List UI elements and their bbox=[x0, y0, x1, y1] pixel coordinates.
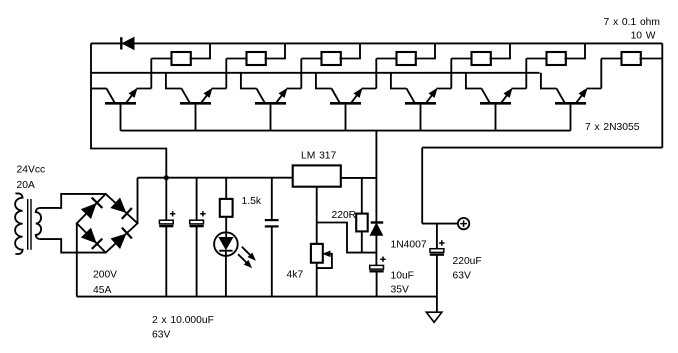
wire Q6 collector stub bbox=[466, 73, 482, 89]
wire R2 leads bbox=[226, 43, 285, 58]
transistor Q7 2N3055 bbox=[555, 102, 586, 105]
resistor 1.5k bbox=[220, 199, 233, 217]
wire Q4 base lead bbox=[345, 103, 347, 130]
wire Q7 base lead bbox=[570, 103, 572, 130]
wire: secondary top lead to bridge bbox=[40, 194, 106, 208]
wire: left input rail down from top rail bbox=[91, 43, 166, 177]
svg-text:LM 317: LM 317 bbox=[301, 151, 337, 162]
wire Q2 emitter stub up through collector rail bbox=[212, 59, 227, 89]
wire: base bus bbox=[121, 130, 571, 132]
svg-text:220R: 220R bbox=[332, 210, 357, 221]
wire Q7 collector stub bbox=[541, 73, 557, 89]
wire Q6 base lead bbox=[495, 103, 497, 130]
capacitor C4 10uF bbox=[370, 265, 384, 269]
ground bbox=[436, 297, 438, 313]
resistor 220R bbox=[356, 214, 368, 232]
wire R6 leads bbox=[526, 43, 585, 58]
transistor Q5 2N3055 bbox=[405, 102, 436, 105]
resistor R7 0.1 ohm bbox=[622, 52, 641, 65]
wire: base bus drop to LM317 output bbox=[375, 131, 377, 178]
resistor R5 0.1 ohm bbox=[472, 52, 491, 65]
wire: LED branch upper lead bbox=[225, 178, 227, 199]
transformer T1 core bbox=[27, 199, 29, 250]
bridge rectifier diamond outline bbox=[77, 194, 138, 253]
wire: unregulated DC bus bbox=[138, 177, 293, 179]
wire: right rail from top rail down to output line bbox=[661, 43, 663, 147]
diode 1N4007 bbox=[371, 221, 384, 223]
wire Q5 collector stub bbox=[391, 73, 407, 89]
wire: secondary bottom lead to bridge bbox=[40, 239, 106, 253]
wire: resistor to LED lead bbox=[225, 217, 227, 238]
wire R7 leads bbox=[601, 58, 662, 60]
junction node unregulated DC bbox=[164, 175, 169, 180]
wire Q1 emitter stub up through collector rail bbox=[137, 59, 152, 89]
resistor R6 0.1 ohm bbox=[547, 52, 566, 65]
transformer T1 secondary winding bbox=[36, 208, 41, 239]
wire: output vertical drop bbox=[421, 148, 423, 224]
transistor Q1 2N3055 bbox=[105, 102, 136, 105]
svg-text:7 x 0.1 ohm: 7 x 0.1 ohm bbox=[603, 17, 660, 28]
resistor R4 0.1 ohm bbox=[397, 52, 416, 65]
wire Q2 base lead bbox=[195, 103, 197, 130]
bridge diode (left to bottom) bbox=[82, 229, 96, 243]
wire R1 leads bbox=[151, 43, 210, 58]
svg-text:1.5k: 1.5k bbox=[242, 196, 262, 207]
svg-text:4k7: 4k7 bbox=[287, 270, 304, 281]
svg-text:1N4007: 1N4007 bbox=[391, 239, 427, 250]
wire: lead to output terminal bbox=[422, 223, 458, 225]
bridge diode (bottom to right) bbox=[111, 234, 125, 248]
bridge diode (top to right) bbox=[111, 198, 125, 212]
wire: diode branch upper lead bbox=[375, 178, 377, 223]
capacitor C3 100nF bbox=[265, 219, 279, 221]
wire: LM317 ADJ lead bbox=[316, 187, 318, 244]
wire Q2 collector stub bbox=[166, 73, 182, 89]
wire: C3 branch bbox=[271, 178, 273, 297]
transistor Q6 2N3055 bbox=[480, 102, 511, 105]
wire: 220R top lead bbox=[361, 178, 363, 214]
wire: LM317 output lead bbox=[341, 177, 377, 179]
svg-text:2 x 10.000uF: 2 x 10.000uF bbox=[152, 315, 214, 326]
transistor Q2 2N3055 bbox=[180, 102, 211, 105]
svg-text:10 W: 10 W bbox=[631, 31, 656, 42]
resistor R2 0.1 ohm bbox=[247, 52, 266, 65]
wire: 220R bottom lead bbox=[361, 231, 363, 252]
wire Q5 base lead bbox=[420, 103, 422, 130]
svg-text:35V: 35V bbox=[391, 285, 409, 296]
wire: LED lower lead bbox=[225, 251, 227, 297]
op-amp U1 LM 317 regulator bbox=[293, 165, 341, 186]
LED pilot light bbox=[214, 232, 238, 256]
wire Q5 emitter stub up through collector rail bbox=[437, 59, 452, 89]
wire Q1 collector stub bbox=[91, 88, 107, 90]
wire: C5 lower lead bbox=[436, 255, 438, 297]
svg-text:20A: 20A bbox=[17, 180, 35, 191]
capacitor C1 10000uF bbox=[159, 220, 173, 224]
capacitor C2 10000uF bbox=[190, 220, 204, 224]
wire Q3 base lead bbox=[270, 103, 272, 130]
svg-text:10uF: 10uF bbox=[391, 271, 414, 282]
capacitor C5 220uF bbox=[430, 249, 444, 253]
wire: collector bus rail bbox=[91, 72, 540, 74]
wire Q7 emitter stub up through collector rail bbox=[587, 59, 602, 89]
transistor Q3 2N3055 bbox=[255, 102, 286, 105]
wire R5 leads bbox=[451, 43, 510, 58]
wire Q4 collector stub bbox=[316, 73, 332, 89]
wire: diode to C4 bbox=[375, 235, 377, 265]
wire Q4 emitter stub up through collector rail bbox=[362, 59, 377, 89]
svg-text:63V: 63V bbox=[152, 329, 170, 340]
wire Q1 base lead bbox=[120, 103, 122, 130]
wire: C1 branch bbox=[165, 178, 167, 297]
potentiometer 4k7 bbox=[311, 244, 323, 263]
wire: ADJ to feedback node bbox=[317, 223, 377, 253]
svg-text:7 x 2N3055: 7 x 2N3055 bbox=[585, 122, 640, 133]
wire: output horizontal line bbox=[422, 147, 662, 149]
wire: bridge - output down to ground bus bbox=[76, 223, 78, 296]
resistor R1 0.1 ohm bbox=[172, 52, 191, 65]
svg-text:220uF: 220uF bbox=[453, 256, 482, 267]
wire: C2 branch bbox=[196, 178, 198, 297]
transformer T1 primary winding bbox=[15, 193, 22, 254]
wire: C5 upper lead bbox=[436, 224, 438, 249]
wire: pot bottom lead bbox=[316, 263, 318, 297]
diode D1 protection (across regulator) on top rail bbox=[120, 37, 122, 49]
wire Q3 collector stub bbox=[241, 73, 257, 89]
svg-text:45A: 45A bbox=[93, 285, 111, 296]
svg-text:200V: 200V bbox=[93, 269, 117, 280]
wire: bridge + output up to bus bbox=[137, 178, 139, 224]
output terminal + bbox=[458, 218, 469, 229]
wire R3 leads bbox=[301, 43, 360, 58]
wire Q6 emitter stub up through collector rail bbox=[512, 59, 527, 89]
wire: ground bus bbox=[77, 296, 437, 298]
wire Q3 emitter stub up through collector rail bbox=[287, 59, 302, 89]
svg-text:63V: 63V bbox=[453, 271, 471, 282]
transistor Q4 2N3055 bbox=[330, 102, 361, 105]
bridge diode (lower-left to top) bbox=[82, 204, 96, 218]
wire R4 leads bbox=[376, 43, 435, 58]
resistor R3 0.1 ohm bbox=[322, 52, 341, 65]
wire: C4 lower lead bbox=[376, 271, 378, 296]
svg-text:24Vcc: 24Vcc bbox=[17, 164, 46, 175]
wire: output top rail bbox=[91, 42, 662, 44]
